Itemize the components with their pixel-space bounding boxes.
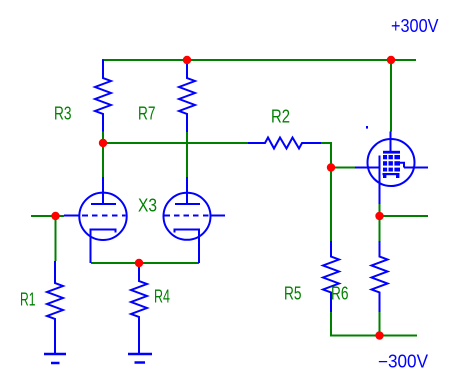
node at R2 right bbox=[327, 163, 335, 171]
wire R3 bottom to node bbox=[102, 132, 104, 144]
wire R7 bottom to V2 plate bbox=[186, 132, 188, 177]
wire grid node down to R1 bbox=[55, 216, 57, 261]
node at R3 bottom bbox=[99, 139, 107, 147]
svg-text:R7: R7 bbox=[138, 104, 156, 124]
wire top rail +300V bbox=[102, 59, 416, 61]
svg-text:R4: R4 bbox=[154, 287, 170, 307]
node at bottom rail bbox=[375, 331, 383, 339]
tube V1 (left triode) bbox=[64, 177, 127, 263]
svg-text:R6: R6 bbox=[331, 284, 349, 304]
wire V1 grid left bbox=[31, 215, 64, 217]
svg-text:R3: R3 bbox=[54, 104, 72, 124]
resistor R3 bbox=[95, 60, 111, 132]
wire pentode plate drop bbox=[390, 60, 392, 132]
resistor R1 bbox=[47, 261, 63, 354]
wire node to V1 plate bbox=[102, 143, 104, 177]
node at pentode drop bbox=[387, 56, 395, 64]
svg-text:+300V: +300V bbox=[391, 16, 439, 36]
node at R7 top bbox=[183, 56, 191, 64]
resistor R2 bbox=[248, 138, 321, 149]
wire bottom -300V rail bbox=[380, 335, 418, 337]
wire cathode bus bbox=[91, 262, 199, 264]
wire pentode cathode down bbox=[379, 204, 381, 241]
wire R5 bottom corner bbox=[331, 312, 380, 336]
node below pentode bbox=[375, 212, 383, 220]
ground at R1 bbox=[44, 354, 66, 363]
wire node to pentode grid bbox=[331, 167, 355, 169]
wire mid horizontal to R2 bbox=[102, 142, 248, 144]
resistor R5 bbox=[323, 241, 339, 312]
wire R6 bottom bbox=[379, 312, 381, 336]
resistor R6 bbox=[372, 241, 388, 312]
tube V2 (right triode) bbox=[164, 177, 226, 263]
node at V1 grid bbox=[51, 212, 59, 220]
resistor R7 bbox=[179, 60, 195, 133]
wire pentode node stub right bbox=[380, 215, 429, 217]
svg-text:R1: R1 bbox=[20, 290, 36, 310]
svg-text:−300V: −300V bbox=[378, 352, 428, 372]
svg-text:R5: R5 bbox=[284, 284, 302, 304]
resistor R4 bbox=[131, 263, 147, 354]
wire R2 right corner down bbox=[320, 143, 331, 241]
svg-text:X3: X3 bbox=[138, 196, 157, 216]
svg-text:R2: R2 bbox=[271, 107, 290, 127]
node at cathode bus bbox=[135, 259, 143, 267]
ground at R4 bbox=[128, 354, 152, 363]
tube U1 (mixer) bbox=[355, 126, 428, 204]
